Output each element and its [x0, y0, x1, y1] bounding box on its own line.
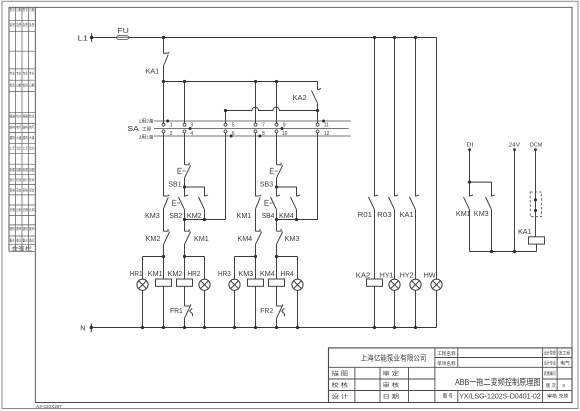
node SB3 bottom junction: [275, 185, 278, 188]
SA closing mark position 1b: [322, 120, 325, 123]
svg-text:HR1: HR1: [130, 269, 143, 278]
SA closing mark position 2: [189, 127, 192, 130]
svg-text:ABB一拖二变频控制原理图: ABB一拖二变频控制原理图: [455, 376, 541, 387]
junction dots on control rail: [162, 80, 165, 83]
node L1: [78, 33, 94, 42]
svg-text:4: 4: [190, 131, 193, 137]
svg-text:工频: 工频: [142, 126, 152, 133]
svg-text:审核: 审核: [10, 188, 16, 193]
contact KM1 NC interlock: [185, 220, 209, 257]
svg-text:会签栏: 会签栏: [11, 245, 32, 252]
svg-text:R03: R03: [377, 210, 391, 219]
svg-text:HY2: HY2: [400, 270, 414, 279]
pushbutton SB4 (NO start): [262, 187, 281, 220]
contact KM1 (run feedback NO): [456, 195, 473, 252]
pushbutton SB1 (NC): [168, 163, 190, 189]
svg-text:水道: 水道: [29, 135, 35, 140]
pushbutton SB3 (NC): [260, 163, 283, 189]
svg-text:7: 7: [262, 123, 265, 129]
svg-text:暖通: 暖通: [23, 114, 29, 119]
svg-text:HR4: HR4: [281, 269, 294, 278]
junction dots on N rail: [141, 326, 417, 329]
svg-text:审定: 审定: [29, 188, 35, 193]
svg-text:工艺: 工艺: [10, 146, 16, 151]
SA closing mark position 3: [230, 135, 233, 138]
svg-text:FR2: FR2: [260, 306, 273, 315]
svg-text:R01: R01: [358, 210, 372, 219]
svg-text:FR1: FR1: [170, 306, 183, 315]
contact R01 (VFD relay output): [358, 38, 379, 280]
svg-text:KM2: KM2: [168, 269, 183, 278]
svg-text:HY1: HY1: [380, 270, 394, 279]
svg-text:工程名称: 工程名称: [437, 350, 456, 357]
svg-text:设计管理: 设计管理: [544, 349, 556, 356]
wire DI feeder: [469, 150, 471, 197]
svg-text:会签: 会签: [10, 22, 16, 27]
svg-text:KA2: KA2: [293, 93, 307, 102]
svg-text:日期: 日期: [29, 83, 35, 88]
svg-text:会签: 会签: [29, 22, 35, 27]
svg-text:KA1: KA1: [400, 210, 414, 219]
wire control rail: [164, 81, 318, 83]
SA closing mark position 2b: [281, 127, 284, 130]
svg-text:描图: 描图: [16, 167, 22, 172]
svg-text:比例: 比例: [16, 207, 22, 212]
svg-text:FU: FU: [117, 26, 128, 35]
svg-text:HW: HW: [424, 270, 436, 279]
thermal relay FR1 NC: [170, 304, 193, 327]
wire SA-11 to group 2 lower rail: [297, 111, 318, 220]
contact KA1 (relay NO contact from L1 bus): [146, 36, 170, 82]
svg-text:2: 2: [170, 131, 173, 137]
svg-text:KA1: KA1: [518, 227, 532, 236]
svg-text:KM1: KM1: [456, 209, 471, 218]
svg-text:校对: 校对: [29, 177, 35, 182]
svg-text:DI: DI: [466, 142, 473, 148]
svg-text:暖通: 暖通: [10, 114, 16, 119]
svg-text:签字: 签字: [10, 7, 16, 12]
SA contact pair 7-8: [254, 123, 265, 137]
svg-text:专业: 专业: [10, 71, 16, 76]
contact KA2 (relay NO contact): [293, 82, 322, 111]
SA closing mark position 1: [166, 120, 169, 123]
svg-text:日期: 日期: [23, 207, 29, 212]
svg-text:制图: 制图: [23, 167, 29, 172]
title block: [329, 348, 573, 403]
svg-text:A3-420X297: A3-420X297: [36, 404, 62, 409]
lamp HR4: [281, 257, 303, 328]
svg-text:底图编号: 底图编号: [544, 370, 556, 377]
svg-text:KM4: KM4: [237, 234, 252, 243]
svg-text:会签: 会签: [23, 83, 29, 88]
svg-text:单项名称: 单项名称: [437, 360, 456, 367]
svg-text:KM2: KM2: [187, 211, 202, 220]
contact KA1 (relay NO): [400, 38, 420, 280]
svg-text:图别: 图别: [10, 226, 16, 231]
svg-text:10: 10: [282, 131, 288, 137]
svg-text:5: 5: [232, 123, 235, 129]
svg-text:审定: 审定: [16, 188, 22, 193]
selector switch SA position lines: [127, 118, 350, 141]
coil KM2: [168, 257, 193, 307]
wire L1 bus: [92, 37, 437, 39]
terminal 24V: [509, 142, 521, 151]
contact KM3 (self-hold NO): [145, 195, 169, 231]
thermal relay FR2 NC: [260, 304, 284, 327]
svg-text:日期: 日期: [16, 7, 22, 12]
svg-text:专业: 专业: [16, 71, 22, 76]
svg-text:专业: 专业: [29, 71, 35, 76]
svg-text:12: 12: [324, 131, 330, 137]
svg-text:24V: 24V: [509, 142, 521, 148]
svg-text:KM1: KM1: [237, 211, 252, 220]
svg-text:审 核: 审 核: [383, 381, 400, 389]
svg-text:DCM: DCM: [530, 142, 543, 148]
svg-text:审核: 审核: [23, 188, 29, 193]
svg-text:HR3: HR3: [218, 269, 231, 278]
svg-text:会签: 会签: [10, 83, 16, 88]
coil KM3: [238, 257, 263, 328]
contact KM4 NC interlock: [237, 229, 261, 257]
svg-text:版 次: 版 次: [546, 382, 556, 389]
svg-text:SB2: SB2: [169, 211, 182, 220]
contact R03 (VFD relay output): [377, 38, 398, 280]
svg-text:制图: 制图: [10, 167, 16, 172]
contact KM2 (interlock branch NO): [187, 195, 208, 220]
lamp HR3: [218, 257, 240, 328]
svg-text:KM3: KM3: [145, 211, 160, 220]
svg-text:备注: 备注: [16, 238, 22, 243]
lamp HY1: [380, 270, 400, 327]
svg-text:描 图: 描 图: [332, 370, 349, 378]
svg-text:KA1: KA1: [146, 67, 160, 76]
svg-text:备注: 备注: [10, 238, 16, 243]
SA contact pair 5-6: [224, 123, 235, 137]
svg-text:KM1: KM1: [148, 269, 163, 278]
svg-text:审 定: 审 定: [383, 370, 400, 378]
svg-text:KM4: KM4: [279, 211, 294, 220]
svg-text:日 期: 日 期: [383, 394, 400, 401]
svg-text:会签: 会签: [23, 22, 29, 27]
svg-text:1: 1: [170, 123, 173, 129]
SA closing mark position 3b: [258, 135, 261, 138]
svg-text:图号: 图号: [16, 226, 22, 231]
svg-text:SB4: SB4: [262, 211, 275, 220]
contact KM3 (run feedback NO): [474, 195, 495, 252]
contact KM1 (self-hold NO): [237, 195, 262, 231]
lamp HR2: [188, 257, 211, 328]
svg-text:图号: 图号: [29, 226, 35, 231]
svg-text:电气: 电气: [29, 125, 35, 130]
svg-text:上海亿能泵业有限公司: 上海亿能泵业有限公司: [361, 354, 427, 363]
wire SA-9 to SB3: [276, 82, 278, 165]
svg-text:KM4: KM4: [260, 269, 275, 278]
svg-text:2用1备: 2用1备: [139, 133, 154, 140]
svg-text:N: N: [80, 324, 85, 333]
svg-text:L1: L1: [78, 33, 89, 42]
svg-text:设计: 设计: [23, 177, 29, 182]
svg-text:KM2: KM2: [146, 234, 161, 243]
svg-text:设计专业: 设计专业: [544, 359, 556, 366]
node N: [80, 324, 93, 333]
wire lower rail of group 1: [185, 133, 226, 220]
terminal DCM: [530, 142, 543, 151]
svg-text:工艺: 工艺: [23, 146, 29, 151]
contact KM2 NC interlock: [146, 209, 170, 257]
svg-text:设 计: 设 计: [332, 393, 349, 401]
svg-text:给水: 给水: [29, 114, 35, 119]
contact KM4 (interlock branch NO): [279, 195, 300, 220]
connector block (dashed): [530, 150, 541, 217]
lamp HY2: [400, 270, 421, 327]
svg-text:图别: 图别: [23, 226, 29, 231]
svg-text:张工程: 张工程: [558, 349, 571, 356]
svg-text:设计: 设计: [10, 177, 16, 182]
svg-text:给水: 给水: [16, 114, 22, 119]
svg-text:电气: 电气: [560, 360, 570, 367]
lamp HR1: [130, 257, 148, 328]
svg-text:日期: 日期: [16, 83, 22, 88]
wire SA-1 to KM3 branch: [163, 82, 165, 197]
wire branch to KM3: [470, 182, 492, 196]
svg-text:11: 11: [324, 123, 329, 129]
SA contact pair 1-2: [162, 123, 173, 137]
svg-text:图 号: 图 号: [443, 392, 453, 399]
svg-text:会签: 会签: [16, 22, 22, 27]
svg-text:水道: 水道: [16, 135, 22, 140]
svg-text:日期: 日期: [29, 7, 35, 12]
svg-text:描图: 描图: [29, 167, 35, 172]
SA contact pair 3-4: [183, 123, 193, 137]
coil KM1: [148, 257, 172, 328]
margin register table: [9, 7, 35, 251]
lamp HW: [424, 270, 443, 327]
svg-text:SB1: SB1: [168, 180, 181, 189]
terminal DI: [466, 142, 473, 151]
svg-text:KA2: KA2: [356, 270, 370, 279]
svg-text:签字: 签字: [23, 7, 29, 12]
wire SA-3 to SB1: [184, 82, 186, 165]
SA contact pair 11-12: [316, 123, 330, 137]
wire jog SB1 to KM2 branch: [185, 187, 205, 196]
svg-text:0: 0: [563, 383, 566, 389]
svg-text:KM1: KM1: [194, 234, 209, 243]
svg-text:结构: 结构: [23, 125, 29, 130]
svg-text:校对: 校对: [16, 177, 22, 182]
wire HW branch: [436, 38, 438, 280]
coil KA2: [356, 270, 383, 327]
wire stub bridge to SA terminal 5: [225, 111, 227, 124]
svg-text:校 核: 校 核: [332, 381, 349, 389]
svg-text:建筑: 建筑: [10, 135, 16, 140]
svg-text:建筑: 建筑: [23, 135, 29, 140]
svg-text:电气: 电气: [16, 125, 22, 130]
SA contact pair 9-10: [275, 123, 288, 137]
svg-text:日期: 日期: [10, 207, 16, 212]
coil KA1: [518, 217, 545, 252]
svg-text:HR2: HR2: [188, 269, 201, 278]
wire N rail: [91, 327, 436, 329]
svg-text:备注: 备注: [29, 238, 35, 243]
wire jog SB3 to KM4 branch: [277, 187, 297, 196]
wire lamp taps group 2: [235, 256, 298, 258]
junction dots on L1 bus right: [373, 36, 376, 39]
contact KM3 NC interlock: [277, 220, 300, 257]
fuse FU: [117, 26, 129, 40]
svg-text:专业: 专业: [23, 71, 29, 76]
node SB1 bottom junction: [183, 185, 186, 188]
svg-text:SB3: SB3: [260, 180, 273, 189]
svg-text:KM3: KM3: [285, 234, 300, 243]
wire bridge with crossover hops: [226, 107, 318, 110]
svg-text:KM3: KM3: [474, 209, 489, 218]
coil KM4: [260, 257, 285, 307]
svg-text:动力: 动力: [29, 146, 35, 151]
svg-text:动力: 动力: [16, 146, 22, 151]
wire SA-7 to KM1 branch: [255, 82, 257, 197]
pushbutton SB2 (NO start): [169, 187, 188, 220]
svg-text:8: 8: [262, 131, 265, 137]
svg-text:KM3: KM3: [238, 269, 253, 278]
svg-text:1用2备: 1用2备: [139, 118, 154, 125]
wire lamp taps group 1: [143, 256, 205, 258]
svg-text:结构: 结构: [10, 125, 16, 130]
svg-text:SA: SA: [127, 124, 139, 133]
wire common return rail: [470, 251, 537, 253]
svg-text:YX/LSG-1202S-D0401-02: YX/LSG-1202S-D0401-02: [459, 391, 541, 400]
svg-text:备注: 备注: [23, 238, 29, 243]
wire 24V feeder: [514, 150, 516, 252]
svg-text:比例: 比例: [29, 207, 35, 212]
wire lower rail of group 2: [277, 219, 297, 221]
svg-text:审核 兑换: 审核 兑换: [547, 393, 569, 400]
